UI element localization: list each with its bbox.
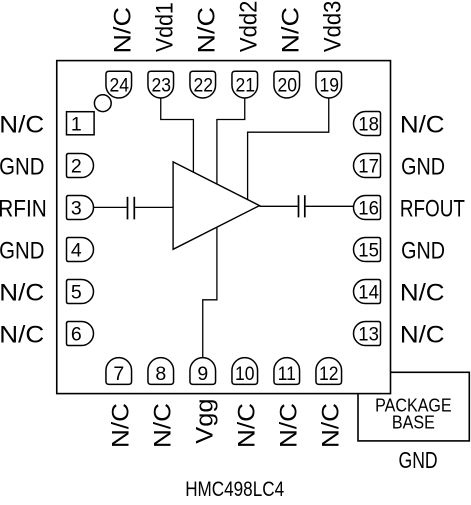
svg-text:N/C: N/C bbox=[0, 321, 44, 348]
svg-text:N/C: N/C bbox=[110, 7, 137, 53]
pin 19 bbox=[316, 71, 342, 98]
svg-text:GND: GND bbox=[0, 153, 44, 180]
capacitor C2 bbox=[299, 195, 305, 217]
svg-text:HMC498LC4: HMC498LC4 bbox=[185, 477, 284, 500]
svg-text:22: 22 bbox=[193, 74, 213, 96]
pin 14 bbox=[354, 280, 381, 304]
svg-text:12: 12 bbox=[319, 362, 339, 384]
svg-text:N/C: N/C bbox=[317, 403, 344, 448]
pin 4 bbox=[67, 238, 94, 262]
pin 20 bbox=[274, 71, 300, 98]
svg-text:7: 7 bbox=[113, 363, 124, 385]
wire amp output to C2 bbox=[260, 205, 298, 207]
svg-text:N/C: N/C bbox=[400, 279, 445, 306]
svg-text:20: 20 bbox=[277, 74, 297, 96]
svg-text:1: 1 bbox=[71, 114, 82, 136]
svg-text:8: 8 bbox=[155, 363, 166, 385]
svg-text:N/C: N/C bbox=[149, 403, 176, 448]
pin 17 bbox=[354, 154, 381, 178]
svg-text:N/C: N/C bbox=[233, 403, 260, 448]
svg-text:15: 15 bbox=[358, 240, 379, 262]
pin 21 bbox=[232, 71, 258, 98]
pin 23 bbox=[148, 71, 174, 98]
svg-text:3: 3 bbox=[71, 198, 82, 220]
svg-text:19: 19 bbox=[319, 74, 339, 96]
svg-text:N/C: N/C bbox=[0, 111, 44, 138]
package base box bbox=[358, 372, 469, 441]
pin 1 bbox=[67, 112, 95, 136]
svg-text:2: 2 bbox=[71, 156, 82, 178]
svg-text:N/C: N/C bbox=[0, 279, 44, 306]
wire pin21 Vdd2 to amp bbox=[217, 98, 245, 184]
svg-text:6: 6 bbox=[71, 324, 82, 346]
svg-text:24: 24 bbox=[109, 74, 129, 96]
svg-text:BASE: BASE bbox=[392, 413, 435, 433]
svg-text:GND: GND bbox=[401, 152, 445, 180]
svg-text:N/C: N/C bbox=[107, 403, 134, 448]
svg-text:9: 9 bbox=[197, 363, 208, 385]
pin 18 bbox=[354, 112, 381, 136]
pin 6 bbox=[67, 322, 94, 346]
wire C2 to pin16 RFOUT bbox=[306, 205, 354, 207]
pin 2 bbox=[67, 154, 94, 178]
package base label bbox=[375, 396, 452, 433]
svg-text:21: 21 bbox=[235, 74, 255, 96]
wire pin3 RFIN to C1 bbox=[94, 206, 127, 208]
pin 1 indicator dot bbox=[94, 95, 111, 112]
svg-text:13: 13 bbox=[358, 324, 379, 346]
svg-text:RFIN: RFIN bbox=[0, 194, 47, 222]
wire pin9 Vgg to amp bbox=[203, 227, 217, 358]
svg-text:17: 17 bbox=[358, 156, 379, 178]
svg-text:10: 10 bbox=[235, 362, 255, 384]
wire pin23 Vdd1 to amp bbox=[161, 98, 194, 172]
svg-text:Vdd2: Vdd2 bbox=[235, 1, 262, 53]
svg-text:4: 4 bbox=[71, 240, 82, 262]
svg-text:18: 18 bbox=[358, 114, 379, 136]
pin 22 bbox=[190, 71, 216, 98]
svg-text:23: 23 bbox=[151, 74, 171, 96]
svg-text:14: 14 bbox=[358, 282, 379, 304]
pin 12 bbox=[316, 358, 342, 385]
svg-text:N/C: N/C bbox=[194, 7, 221, 53]
svg-text:N/C: N/C bbox=[278, 7, 305, 53]
svg-text:RFOUT: RFOUT bbox=[400, 194, 465, 222]
pin 15 bbox=[354, 238, 381, 262]
svg-text:GND: GND bbox=[401, 236, 445, 264]
svg-text:N/C: N/C bbox=[400, 111, 445, 138]
svg-text:N/C: N/C bbox=[275, 403, 302, 448]
svg-text:5: 5 bbox=[71, 282, 82, 304]
svg-text:GND: GND bbox=[0, 237, 44, 264]
svg-text:N/C: N/C bbox=[400, 321, 445, 348]
wire pin19 Vdd3 to amp bbox=[248, 98, 329, 200]
svg-text:Vgg: Vgg bbox=[191, 399, 218, 444]
svg-text:Vdd1: Vdd1 bbox=[150, 2, 178, 52]
pin 24 bbox=[106, 71, 132, 98]
wire C1 to amp input bbox=[135, 206, 173, 208]
pin 8 bbox=[148, 358, 174, 386]
op-amp amplifier triangle bbox=[173, 162, 259, 249]
pin 5 bbox=[67, 280, 94, 304]
pin 16 bbox=[354, 196, 381, 220]
pin 13 bbox=[354, 322, 381, 346]
svg-text:Vdd3: Vdd3 bbox=[319, 1, 346, 53]
pin 9 bbox=[190, 358, 216, 385]
pin 11 bbox=[274, 358, 300, 385]
package outline bbox=[57, 61, 391, 394]
svg-text:11: 11 bbox=[278, 362, 296, 384]
pin 7 bbox=[106, 358, 132, 386]
svg-text:GND: GND bbox=[399, 448, 438, 474]
pin 3 bbox=[67, 196, 94, 220]
pin 10 bbox=[232, 358, 258, 385]
capacitor C1 bbox=[128, 197, 135, 220]
svg-text:16: 16 bbox=[358, 198, 379, 220]
